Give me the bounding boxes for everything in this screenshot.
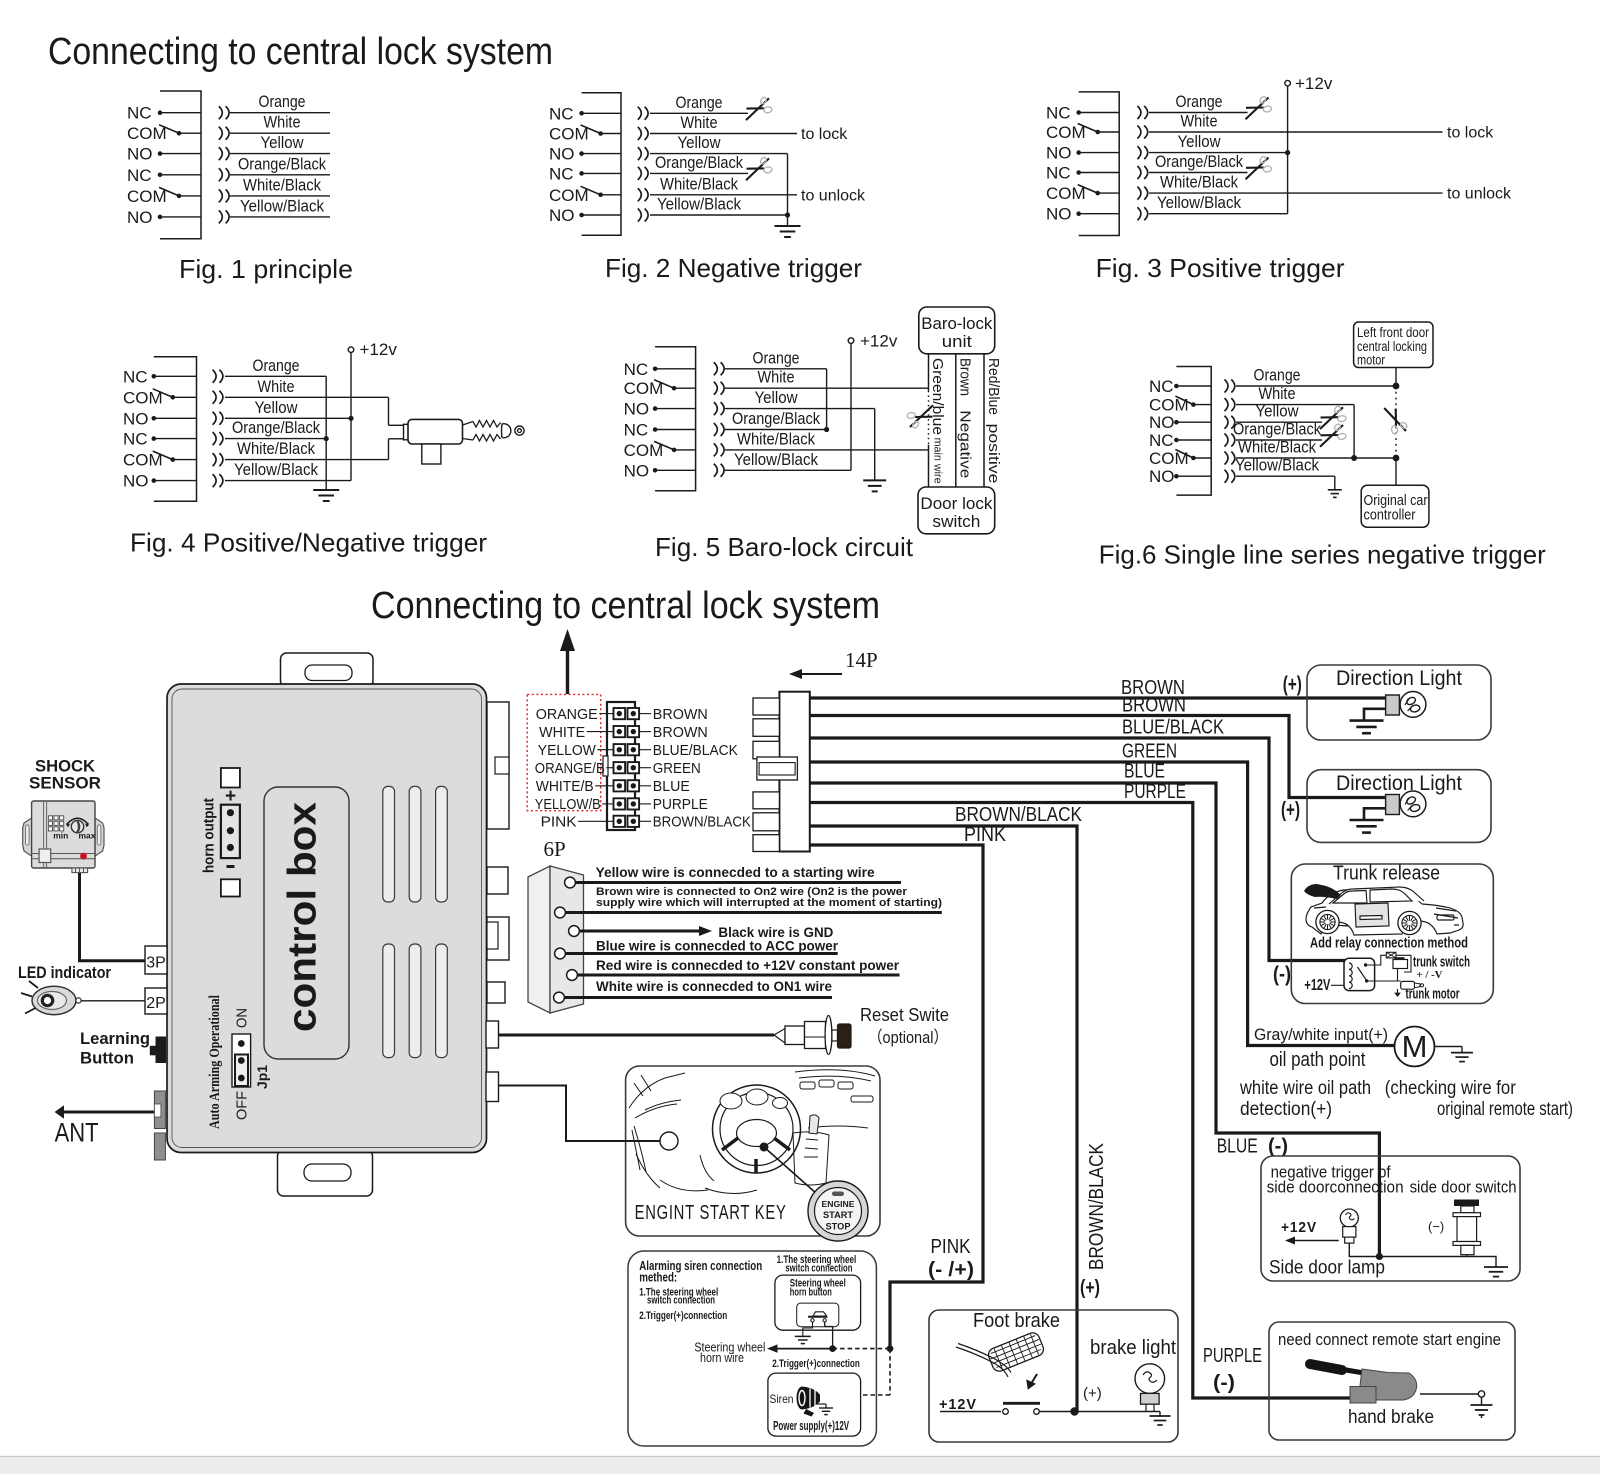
wire fuse to switch — [1396, 955, 1411, 972]
Fig1 COM switch arm — [159, 125, 179, 134]
shock sensor body — [32, 801, 95, 868]
Fig6 row 5 connector arcs — [1225, 452, 1229, 465]
Fig5 wire Yellow to ground — [725, 408, 875, 410]
car open trunk lid — [1304, 884, 1341, 899]
shock sensor slider square — [39, 849, 51, 863]
Fig4 wire White/Black — [225, 459, 389, 461]
svg-text:PINK: PINK — [541, 815, 577, 831]
Fig4 wire Orange — [225, 375, 326, 377]
svg-text:NO: NO — [1149, 467, 1175, 486]
6P wire Blue note — [565, 952, 838, 955]
svg-text:2P: 2P — [146, 995, 166, 1012]
Fig4 junction dot Yellow — [348, 416, 353, 421]
steering wheel spokes — [722, 1138, 790, 1173]
3P connector box — [145, 946, 167, 974]
svg-text:NC: NC — [1149, 377, 1174, 396]
Fig2 row 5 connector arcs — [638, 188, 642, 201]
svg-text:(checking wire for: (checking wire for — [1385, 1078, 1517, 1099]
side door box — [1261, 1156, 1520, 1281]
harness wire GREEN to oil path point — [810, 762, 1394, 1046]
Fig2 vertical wire Yellow to ground — [787, 154, 789, 226]
svg-text:Orange: Orange — [676, 93, 723, 112]
Fig4 COM wire to bracket — [173, 396, 197, 398]
Fig4 wire White/Black vertical to actuator — [388, 439, 390, 460]
svg-text:Learning: Learning — [80, 1029, 150, 1048]
svg-text:White: White — [681, 113, 718, 132]
Fig6 wire Yellow/Black to ground — [1236, 475, 1335, 477]
svg-text:+12V: +12V — [1304, 977, 1330, 994]
svg-text:Brown: Brown — [957, 358, 974, 396]
control box body — [167, 684, 487, 1153]
Fig3 wire Yellow — [1149, 152, 1288, 154]
svg-text:BROWN/BLACK: BROWN/BLACK — [955, 804, 1083, 826]
Fig5 COM switch arm — [654, 441, 674, 450]
svg-text:Negative: Negative — [957, 410, 974, 478]
bulb globe with filament — [1400, 791, 1426, 817]
6P pin 2 — [555, 907, 566, 918]
svg-text:PINK: PINK — [964, 824, 1007, 846]
svg-text:Yellow/Black: Yellow/Black — [734, 450, 818, 469]
Fig5 COM wire to bracket — [674, 449, 696, 451]
ENGINT START KEY box — [626, 1066, 880, 1236]
Fig6 wire junction to Original car controller — [1395, 458, 1397, 485]
svg-text:Orange/Black: Orange/Black — [655, 153, 743, 172]
Fig1 NO contact dot — [158, 215, 163, 220]
svg-text:max: max — [78, 830, 95, 840]
Fig5 row 3 connector arcs — [714, 402, 718, 415]
svg-text:COM: COM — [127, 124, 167, 143]
svg-text:NO: NO — [549, 206, 575, 225]
svg-text:Yellow/Black: Yellow/Black — [240, 196, 324, 215]
svg-text:Yellow/Black: Yellow/Black — [234, 460, 318, 479]
svg-text:Baro-lock: Baro-lock — [921, 314, 992, 333]
Fig3 NC wire to bracket — [1079, 112, 1120, 114]
svg-text:trunk motor: trunk motor — [1406, 986, 1460, 1003]
Fig4 COM switch arm — [153, 389, 173, 398]
svg-text:Yellow: Yellow — [261, 133, 305, 152]
dashed link down to siren — [889, 1349, 891, 1395]
pedal press arrow — [1028, 1374, 1038, 1388]
central lock connector pin row 2 — [614, 726, 626, 737]
svg-text:Orange/Black: Orange/Black — [732, 409, 820, 428]
Fig5 NC wire to bracket — [655, 429, 696, 431]
harness wire PURPLE to hand brake — [810, 803, 1364, 1399]
svg-text:(+): (+) — [1083, 1385, 1102, 1402]
dashboard illustration — [629, 1070, 875, 1194]
6P wire White note — [564, 996, 832, 999]
shock sensor inner vertical rib — [43, 802, 45, 867]
car front wheel — [1316, 910, 1339, 933]
Fig6 wire Orange to motor junction — [1236, 385, 1396, 387]
siren illustration — [797, 1387, 820, 1410]
svg-text:BLUE: BLUE — [653, 779, 690, 795]
Fig6 NO contact dot — [1174, 474, 1179, 479]
Fig3 row 4 connector arcs — [1137, 166, 1141, 179]
Fig3 row 2 connector arcs — [1137, 126, 1141, 139]
svg-text:White: White — [1259, 384, 1296, 403]
svg-text:2.Trigger(+)connection: 2.Trigger(+)connection — [639, 1310, 727, 1322]
side door switch ground wire — [1467, 1257, 1496, 1268]
Fig6 NC contact dot — [1174, 438, 1179, 443]
6P pin 6 — [554, 992, 565, 1003]
Fig1 NC wire to bracket — [160, 174, 201, 176]
Fig6 row 6 connector arcs — [1225, 470, 1229, 483]
Fig5 COM switch arm — [654, 380, 674, 389]
relay lower wire to trunk motor — [1367, 980, 1401, 982]
Fig2 row 1 connector arcs — [638, 107, 642, 120]
Fig6 dashed wire (cut) to controller — [1395, 386, 1397, 458]
svg-text:side door switch: side door switch — [1410, 1178, 1517, 1197]
car illustration — [1306, 887, 1463, 935]
harness wire BROWN/BLACK to foot brake — [810, 826, 1077, 1412]
svg-text:NC: NC — [1046, 104, 1071, 123]
svg-text:Yellow: Yellow — [1256, 402, 1300, 421]
svg-text:Fig. 2 Negative trigger: Fig. 2 Negative trigger — [605, 253, 862, 283]
harness wire BROWN 2 to Direction Light 2 — [810, 716, 1386, 798]
Fig1 wire White — [230, 132, 330, 134]
Fig5 row 5 connector arcs — [714, 443, 718, 456]
svg-text:Door lock: Door lock — [920, 494, 992, 513]
Trunk release box — [1291, 864, 1493, 1004]
svg-text:GREEN: GREEN — [1122, 741, 1177, 763]
central lock connector pin row 5 — [614, 780, 626, 791]
2P connector box — [145, 988, 167, 1014]
Fig5 row 6 connector arcs — [714, 464, 718, 477]
wire control box to horn circle — [499, 1086, 661, 1142]
Fig4 bracket — [154, 357, 197, 502]
6P connector side face — [528, 866, 550, 1013]
foot brake wire to bulb and ground — [1075, 1411, 1161, 1413]
Fig4 NC contact dot — [152, 436, 157, 441]
hand brake box — [1269, 1322, 1515, 1440]
Fig4 wire White — [225, 396, 389, 398]
svg-text:Fig. 3 Positive trigger: Fig. 3 Positive trigger — [1096, 253, 1345, 283]
bulb globe with filament — [1400, 692, 1426, 718]
Fig3 wire White/Black to unlock — [1149, 192, 1443, 194]
vent slots lower group — [383, 944, 395, 1058]
svg-text:+12v: +12v — [1295, 74, 1333, 93]
svg-text:White/Black: White/Black — [237, 439, 315, 458]
Fig5 scissors on main wire — [907, 405, 933, 429]
Fig5 NC contact dot — [653, 367, 658, 372]
side door lamp bulb — [1340, 1209, 1358, 1227]
svg-text:PINK: PINK — [931, 1236, 972, 1258]
6P pin 1 — [565, 877, 576, 888]
control box right connector E (reset) — [486, 1021, 499, 1048]
svg-text:main wire: main wire — [932, 438, 944, 484]
svg-text:to unlock: to unlock — [1447, 186, 1512, 203]
Fig4 row 1 connector arcs — [213, 370, 217, 383]
horn button ground branch — [803, 1322, 813, 1336]
svg-text:White/Black: White/Black — [737, 429, 815, 448]
svg-text:NO: NO — [624, 400, 650, 419]
control box right connector B — [487, 867, 508, 894]
svg-text:switch: switch — [932, 512, 980, 531]
Fig1 wire Orange — [230, 112, 330, 114]
Fig5 vertical wire Orange-Orange/Black — [826, 369, 828, 430]
svg-text:switch connection: switch connection — [647, 1295, 715, 1307]
Fig2 COM wire to bracket — [601, 133, 621, 135]
shock sensor red LED — [80, 853, 87, 860]
trunk motor ground arrow — [1397, 989, 1399, 993]
svg-text:(−): (−) — [1428, 1219, 1444, 1234]
svg-text:Power supply(+)12V: Power supply(+)12V — [773, 1419, 849, 1433]
svg-text:hand brake: hand brake — [1348, 1407, 1434, 1428]
brake light base — [1141, 1393, 1160, 1404]
Fig6 row 4 connector arcs — [1225, 434, 1229, 447]
Fig1 COM wire to bracket — [179, 195, 201, 197]
M motor ground — [1451, 1052, 1473, 1054]
svg-text:Connecting to central lock sys: Connecting to central lock system — [48, 31, 553, 73]
Fig6 row 1 connector arcs — [1225, 380, 1229, 393]
svg-text:BLUE: BLUE — [1124, 761, 1165, 783]
svg-text:WHITE/B: WHITE/B — [536, 779, 594, 795]
Fig2 COM switch arm — [581, 186, 601, 195]
Fig2 COM switch arm — [581, 125, 601, 134]
svg-text:NC: NC — [549, 104, 574, 123]
horn output connector with 3 pins — [221, 805, 240, 858]
Fig4 actuator bellows — [463, 422, 474, 441]
Fig3 COM switch arm — [1078, 124, 1098, 133]
central lock connector pin row 1 — [614, 708, 626, 719]
Foot brake box — [929, 1310, 1178, 1442]
Fig5 wire White to Green/blue main wire — [725, 387, 929, 389]
svg-text:White: White — [264, 113, 301, 132]
svg-text:BROWN/BLACK: BROWN/BLACK — [653, 815, 751, 831]
svg-text:White/Black: White/Black — [1238, 438, 1316, 457]
svg-text:COM: COM — [624, 379, 664, 398]
svg-text:NO: NO — [127, 145, 153, 164]
svg-text:GREEN: GREEN — [653, 761, 701, 777]
Fig1 wire Orange/Black — [230, 174, 330, 176]
svg-text:BROWN: BROWN — [1122, 695, 1186, 717]
Fig4 NO contact dot — [152, 416, 157, 421]
svg-text:ORANGE/B: ORANGE/B — [535, 761, 605, 777]
Fig5 Baro-lock unit box — [919, 307, 995, 354]
fuse symbol — [1386, 952, 1396, 958]
svg-text:Yellow/Black: Yellow/Black — [657, 195, 741, 214]
bottom gray band — [0, 1457, 1600, 1474]
svg-text:2.Trigger(+)connection: 2.Trigger(+)connection — [772, 1358, 860, 1370]
svg-text:Yellow: Yellow — [755, 388, 799, 407]
14P connector body — [779, 692, 809, 852]
Fig4 +12v node — [348, 347, 354, 353]
svg-text:WHITE: WHITE — [539, 725, 585, 741]
siren ground — [816, 1403, 826, 1405]
Fig4 wire Yellow — [225, 417, 351, 419]
svg-text:Orange/Black: Orange/Black — [232, 418, 320, 437]
svg-text:M: M — [1402, 1029, 1428, 1064]
14P connector latch — [757, 757, 798, 780]
Fig4 NO wire to bracket — [154, 417, 197, 419]
relay to trunk switch wiring — [1366, 955, 1387, 965]
LED indicator body — [32, 986, 76, 1014]
svg-text:COM: COM — [549, 125, 589, 144]
Fig2 row 3 connector arcs — [638, 147, 642, 160]
control box label — [264, 787, 349, 1059]
svg-text:YELLOW: YELLOW — [538, 743, 596, 759]
steering wheel — [713, 1085, 801, 1173]
svg-text:STOP: STOP — [826, 1222, 852, 1233]
siren box — [768, 1373, 861, 1436]
Fig1 row 3 connector arcs — [219, 147, 223, 160]
svg-text:Yellow: Yellow — [678, 133, 722, 152]
control box right connector F (horn wire) — [486, 1072, 499, 1102]
junction dot horn wire — [829, 1345, 836, 1352]
svg-text:ORANGE: ORANGE — [536, 707, 598, 723]
Fig5 Red/Blue positive wire — [983, 354, 985, 487]
Fig3 COM switch arm — [1078, 185, 1098, 194]
Fig5 +12v vertical wire — [850, 343, 852, 470]
svg-text:ANT: ANT — [55, 1118, 99, 1148]
Fig3 NC wire to bracket — [1079, 172, 1120, 174]
Fig5 wire Orange — [725, 368, 827, 370]
relay coil symbol — [1349, 963, 1352, 989]
svg-text:NC: NC — [624, 421, 649, 440]
svg-text:Yellow: Yellow — [1178, 132, 1222, 151]
svg-text:PURPLE: PURPLE — [1203, 1345, 1262, 1367]
svg-text:white wire oil path: white wire oil path — [1239, 1078, 1371, 1099]
harness wire BLUE to side door — [810, 783, 1380, 1257]
svg-text:NO: NO — [549, 145, 575, 164]
shock sensor bottom connector — [72, 868, 88, 873]
Fig4 NC wire to bracket — [154, 375, 197, 377]
Fig5 NC contact dot — [653, 427, 658, 432]
Fig2 NC contact dot — [579, 171, 584, 176]
svg-text:NC: NC — [549, 164, 574, 183]
svg-text:NC: NC — [127, 166, 152, 185]
svg-text:side doorconnection: side doorconnection — [1267, 1178, 1404, 1197]
svg-text:NO: NO — [123, 409, 149, 428]
Fig3 wire Orange (cut) — [1149, 112, 1248, 114]
Fig4 door lock actuator — [404, 424, 409, 440]
ANT antenna arrow — [55, 1105, 64, 1119]
Fig2 row 4 connector arcs — [638, 167, 642, 180]
svg-text:NO: NO — [624, 461, 650, 480]
svg-text:14P: 14P — [845, 648, 878, 672]
Fig1 NO wire to bracket — [160, 153, 201, 155]
Fig5 NC wire to bracket — [655, 368, 696, 370]
Fig4 row 6 connector arcs — [213, 474, 217, 487]
Direction Light 1 box — [1307, 665, 1491, 740]
horn wire arrow — [773, 1348, 833, 1350]
brake light ground — [1159, 1412, 1161, 1417]
Fig6 NC wire to bracket — [1176, 439, 1211, 441]
svg-text:White/Black: White/Black — [243, 175, 321, 194]
Fig5 Green/blue main wire (cut) — [928, 354, 930, 391]
svg-text:Gray/white input(+): Gray/white input(+) — [1254, 1025, 1388, 1044]
side door junction to switch — [1379, 1256, 1467, 1258]
horn output + terminal square — [221, 768, 240, 788]
svg-text:Orange: Orange — [1176, 92, 1223, 111]
svg-text:COM: COM — [1046, 123, 1086, 142]
svg-text:COM: COM — [1149, 449, 1189, 468]
control box inner outline — [172, 689, 482, 1148]
svg-text:Direction Light: Direction Light — [1336, 772, 1462, 795]
Fig6 COM wire to bracket — [1193, 457, 1211, 459]
svg-text:ON: ON — [234, 1008, 251, 1028]
central lock connector latch — [603, 756, 608, 776]
Fig2 junction dot Yellow/Black — [785, 212, 790, 217]
svg-text:Siren: Siren — [770, 1392, 794, 1406]
svg-text:oil path point: oil path point — [1270, 1049, 1366, 1071]
Fig2 wire Yellow — [650, 153, 788, 155]
Direction Light 2 box — [1307, 770, 1491, 843]
brake light legs — [1145, 1404, 1147, 1411]
svg-text:NC: NC — [1149, 431, 1174, 450]
Direction Light 2 ground — [1350, 819, 1384, 822]
Fig4 row 5 connector arcs — [213, 453, 217, 466]
red dotted selection box — [527, 694, 601, 810]
Fig6 NO wire to bracket — [1176, 421, 1211, 423]
6P wire Red note — [577, 974, 900, 977]
svg-text:(-): (-) — [1268, 1136, 1288, 1158]
Fig3 row 3 connector arcs — [1137, 146, 1141, 159]
Fig5 Brown Negative wire — [955, 354, 957, 487]
ANT connector on box — [154, 1091, 165, 1129]
svg-text:to lock: to lock — [801, 126, 848, 143]
Fig4 row 3 connector arcs — [213, 412, 217, 425]
Fig5 NO wire to bracket — [655, 408, 696, 410]
svg-text:Red wire is connecded to +12V: Red wire is connecded to +12V constant p… — [596, 957, 900, 973]
car rear wheel — [1398, 911, 1421, 934]
control box right connector D — [487, 982, 505, 1003]
Fig1 NO wire to bracket — [160, 216, 201, 218]
svg-text:White/Black: White/Black — [1160, 173, 1238, 192]
svg-text:to unlock: to unlock — [801, 187, 866, 204]
svg-text:NO: NO — [1046, 144, 1072, 163]
svg-text:control box: control box — [281, 802, 325, 1032]
Fig4 COM wire to bracket — [173, 459, 197, 461]
Fig3 NO wire to bracket — [1079, 152, 1120, 154]
shock sensor wire to 3P — [80, 873, 146, 961]
svg-text:PURPLE: PURPLE — [1124, 781, 1186, 803]
svg-text:(+): (+) — [1281, 798, 1300, 821]
svg-text:+12V: +12V — [939, 1396, 977, 1413]
Fig4 actuator eyelet — [515, 426, 524, 435]
LED wire to 2P — [81, 1000, 145, 1002]
Fig6 bracket — [1176, 367, 1211, 496]
svg-text:Side door lamp: Side door lamp — [1269, 1258, 1385, 1279]
Fig1 row 2 connector arcs — [219, 127, 223, 140]
Fig6 COM switch arm — [1175, 450, 1193, 459]
svg-text:White: White — [758, 368, 795, 387]
shock sensor adjust knob — [71, 820, 83, 832]
Fig5 row 4 connector arcs — [714, 423, 718, 436]
hand brake contact wire — [1420, 1393, 1478, 1395]
svg-text:ENGINT START KEY: ENGINT START KEY — [635, 1202, 787, 1224]
Fig1 NC contact dot — [158, 110, 163, 115]
svg-text:to lock: to lock — [1447, 125, 1494, 142]
6P wire Brown note — [565, 911, 942, 914]
svg-text:LED indicator: LED indicator — [18, 963, 111, 982]
Fig2 wire Yellow/Black — [650, 214, 788, 216]
Fig4 ground — [313, 489, 339, 491]
svg-text:White wire is connecded to ON1: White wire is connecded to ON1 wire — [596, 978, 832, 994]
svg-text:Button: Button — [80, 1049, 134, 1068]
svg-text:SENSOR: SENSOR — [29, 775, 101, 793]
Fig1 wire White/Black — [230, 195, 330, 197]
Fig5 Door lock switch box — [918, 487, 995, 534]
reset switch wire — [499, 1034, 775, 1037]
svg-text:COM: COM — [127, 187, 167, 206]
Fig1 COM switch arm — [159, 187, 179, 196]
Fig6 wire Orange/Black (cut) — [1236, 439, 1322, 441]
Fig1 wire Yellow/Black — [230, 216, 330, 218]
Fig6 NO wire to bracket — [1176, 475, 1211, 477]
Fig4 wire White vertical to actuator — [388, 397, 390, 425]
control box top mounting tab — [281, 653, 374, 687]
